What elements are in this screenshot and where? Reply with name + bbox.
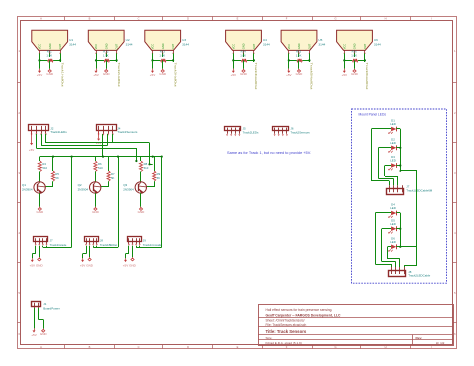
svg-text:U4: U4 xyxy=(263,38,267,42)
svg-text:GND: GND xyxy=(46,72,54,76)
svg-text:+5V: +5V xyxy=(286,73,291,77)
svg-text:BoardPower: BoardPower xyxy=(43,306,60,310)
svg-text:Track1LEDCable6M: Track1LEDCable6M xyxy=(406,188,433,192)
svg-text:Hall effect sensors for train: Hall effect sensors for train presence s… xyxy=(266,308,333,312)
svg-text:Track4HallOut: Track4HallOut xyxy=(254,63,258,90)
svg-text:Track1Grade: Track1Grade xyxy=(50,243,67,247)
svg-text:Track1BlkDet: Track1BlkDet xyxy=(100,243,117,247)
svg-text:U3: U3 xyxy=(182,38,186,42)
svg-text:GND: GND xyxy=(36,210,44,214)
svg-text:R8: R8 xyxy=(144,162,148,166)
svg-text:1.0K: 1.0K xyxy=(159,54,165,58)
svg-text:U2: U2 xyxy=(126,38,130,42)
svg-text:G: G xyxy=(334,17,336,21)
svg-text:E: E xyxy=(237,17,239,21)
svg-text:2N3904: 2N3904 xyxy=(123,187,134,191)
svg-text:C: C xyxy=(138,345,140,349)
svg-text:+5V: +5V xyxy=(231,73,236,77)
svg-text:Track2HallOut: Track2HallOut xyxy=(117,63,121,87)
svg-text:Track5HallOut: Track5HallOut xyxy=(310,63,314,90)
svg-text:GND: GND xyxy=(138,210,146,214)
svg-text:Rev:: Rev: xyxy=(416,336,423,340)
svg-text:A: A xyxy=(40,17,42,21)
svg-text:LED: LED xyxy=(390,206,396,210)
svg-text:3144: 3144 xyxy=(263,43,270,47)
svg-text:Mount Panel LEDs: Mount Panel LEDs xyxy=(359,113,387,117)
svg-text:Size: | Date:: Size: | Date: xyxy=(266,336,273,340)
svg-text:GND: GND xyxy=(40,332,48,336)
svg-text:VCC: VCC xyxy=(38,44,42,50)
svg-text:GND: GND xyxy=(129,264,137,268)
svg-text:VCC: VCC xyxy=(287,44,291,50)
svg-text:OUT: OUT xyxy=(363,43,367,49)
svg-text:1.0K: 1.0K xyxy=(296,54,302,58)
svg-text:GND: GND xyxy=(36,264,44,268)
svg-text:OUT: OUT xyxy=(115,43,119,49)
svg-text:510: 510 xyxy=(98,166,103,170)
svg-text:3144: 3144 xyxy=(126,43,133,47)
svg-text:LED: LED xyxy=(390,240,396,244)
svg-text:B: B xyxy=(89,17,91,21)
svg-text:5K: 5K xyxy=(157,176,161,180)
svg-text:Same as for Track 1, but no ne: Same as for Track 1, but no need to prov… xyxy=(227,151,311,155)
svg-text:+5V: +5V xyxy=(150,73,155,77)
svg-text:GND: GND xyxy=(296,72,304,76)
svg-text:J7: J7 xyxy=(50,238,53,242)
svg-text:C: C xyxy=(138,17,140,21)
svg-text:A: A xyxy=(40,345,42,349)
svg-text:D: D xyxy=(187,345,189,349)
svg-text:+5V: +5V xyxy=(30,264,35,268)
svg-text:1.0K: 1.0K xyxy=(351,54,357,58)
svg-text:LED: LED xyxy=(390,141,396,145)
svg-text:GND: GND xyxy=(103,72,111,76)
svg-text:2N3904: 2N3904 xyxy=(78,187,89,191)
svg-text:Track2LEDCable: Track2LEDCable xyxy=(408,274,430,278)
svg-text:3144: 3144 xyxy=(318,43,325,47)
svg-text:+5V: +5V xyxy=(80,264,85,268)
svg-text:LED: LED xyxy=(390,122,396,126)
svg-text:5K: 5K xyxy=(111,176,115,180)
svg-text:OUT: OUT xyxy=(252,43,256,49)
svg-text:U6: U6 xyxy=(374,38,378,42)
svg-text:1.0K: 1.0K xyxy=(240,54,246,58)
svg-text:+5V: +5V xyxy=(37,73,42,77)
svg-text:+5V: +5V xyxy=(31,333,36,337)
svg-text:R5: R5 xyxy=(55,172,59,176)
svg-text:VCC: VCC xyxy=(94,44,98,50)
svg-text:Track6HallOut: Track6HallOut xyxy=(365,63,369,90)
svg-text:1.0K: 1.0K xyxy=(46,54,52,58)
svg-text:Geoff Carpenter -- FARGOS Deve: Geoff Carpenter -- FARGOS Development, L… xyxy=(266,313,342,317)
svg-text:1.0K: 1.0K xyxy=(103,54,109,58)
svg-text:H: H xyxy=(385,17,387,21)
svg-text:GND: GND xyxy=(92,210,100,214)
svg-text:Track1LEDs: Track1LEDs xyxy=(50,130,67,134)
svg-text:R9: R9 xyxy=(157,172,161,176)
svg-text:OUT: OUT xyxy=(171,43,175,49)
svg-text:LED: LED xyxy=(390,159,396,163)
svg-text:Track1Sensors: Track1Sensors xyxy=(117,130,138,134)
svg-text:3144: 3144 xyxy=(374,43,381,47)
svg-text:GND: GND xyxy=(240,72,248,76)
svg-text:VCC: VCC xyxy=(151,44,155,50)
svg-text:OUT: OUT xyxy=(58,43,62,49)
svg-text:Id: 1/2: Id: 1/2 xyxy=(436,341,445,345)
svg-text:R7: R7 xyxy=(111,172,115,176)
svg-text:+5V: +5V xyxy=(123,264,128,268)
svg-text:Track1HallOut: Track1HallOut xyxy=(60,63,64,87)
svg-text:OUT: OUT xyxy=(308,43,312,49)
svg-text:D: D xyxy=(187,17,189,21)
svg-text:Title: Track Sensors: Title: Track Sensors xyxy=(266,329,307,334)
svg-text:VCC: VCC xyxy=(231,44,235,50)
svg-text:Track2Sensors: Track2Sensors xyxy=(290,131,310,135)
svg-text:Track1CrossE: Track1CrossE xyxy=(143,243,161,247)
svg-text:+5V: +5V xyxy=(342,73,347,77)
svg-text:+5V: +5V xyxy=(29,148,34,152)
svg-text:Track3HallOut: Track3HallOut xyxy=(173,63,177,87)
svg-text:510: 510 xyxy=(42,166,47,170)
svg-text:U1: U1 xyxy=(69,38,73,42)
svg-text:KiCad E.D.A. elcad (5.1.9): KiCad E.D.A. elcad (5.1.9) xyxy=(266,341,302,345)
svg-text:GND: GND xyxy=(159,72,167,76)
svg-text:E: E xyxy=(237,345,239,349)
svg-text:5K: 5K xyxy=(55,176,59,180)
svg-text:+5V: +5V xyxy=(93,73,98,77)
svg-text:File: TrackSensors.elcad.sch: File: TrackSensors.elcad.sch xyxy=(266,323,307,327)
svg-text:3144: 3144 xyxy=(182,43,189,47)
svg-text:R4: R4 xyxy=(42,162,46,166)
svg-text:2N3904: 2N3904 xyxy=(22,187,33,191)
svg-text:Track2LEDs: Track2LEDs xyxy=(243,131,259,135)
svg-text:GND: GND xyxy=(86,264,94,268)
svg-text:3144: 3144 xyxy=(69,43,76,47)
svg-text:U5: U5 xyxy=(318,38,322,42)
svg-text:B: B xyxy=(89,345,91,349)
svg-text:GND: GND xyxy=(351,72,359,76)
svg-text:VCC: VCC xyxy=(342,44,346,50)
svg-text:510: 510 xyxy=(144,166,149,170)
svg-text:J8: J8 xyxy=(100,238,103,242)
svg-text:J9: J9 xyxy=(143,238,146,242)
svg-text:R6: R6 xyxy=(98,162,102,166)
svg-text:LED: LED xyxy=(390,222,396,226)
